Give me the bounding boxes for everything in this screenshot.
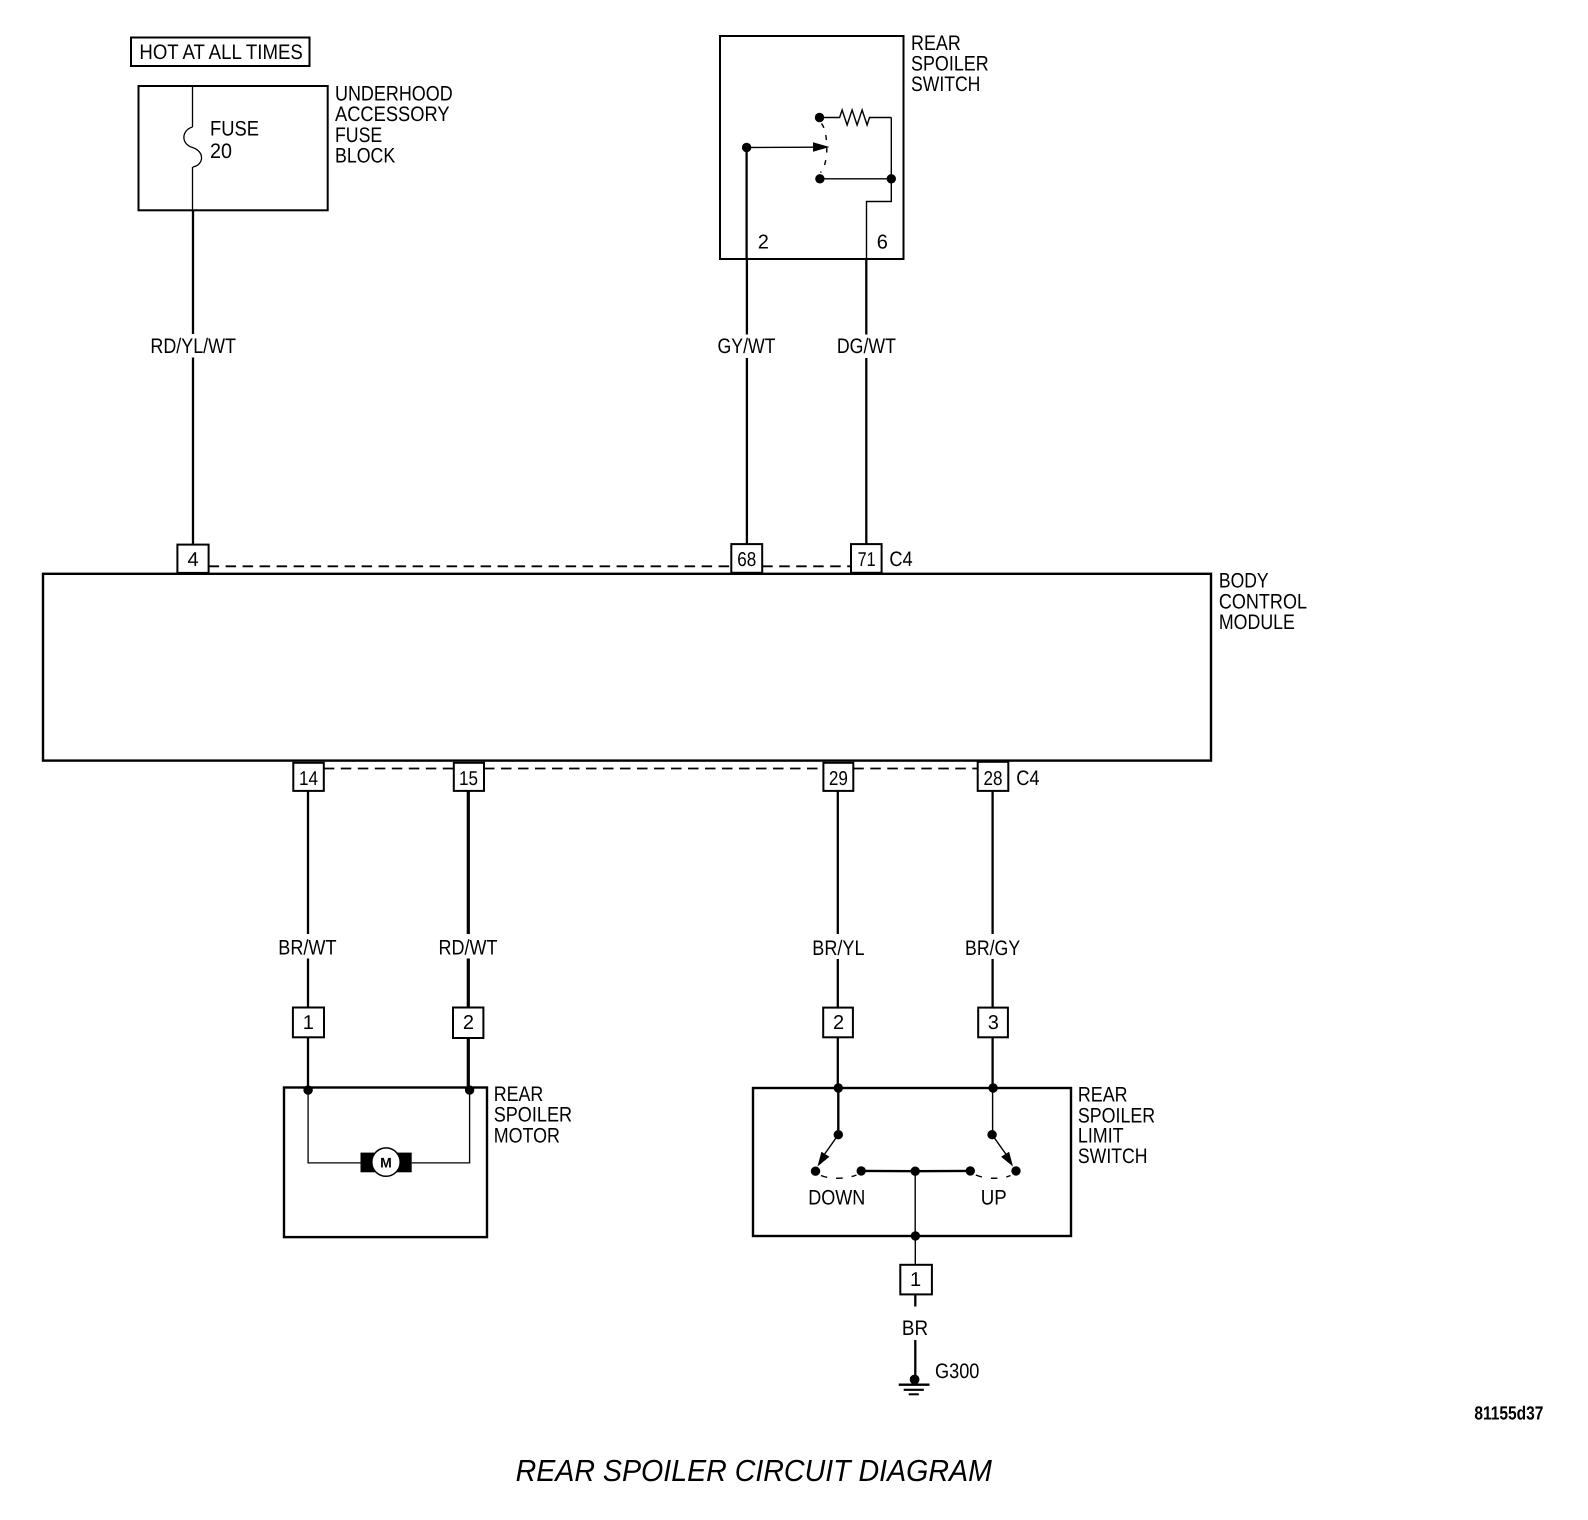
svg-text:BR/GY: BR/GY [965,937,1020,960]
svg-text:BR: BR [902,1317,928,1340]
up dashed arc [976,1175,1011,1178]
motor pin 1 [293,1008,324,1038]
wire BR/YL lower segment [837,959,839,1008]
svg-text:3: 3 [988,1012,999,1034]
label REAR SPOILER SWITCH [911,32,989,96]
wire pin2 to motor [467,1038,470,1088]
svg-text:1: 1 [910,1269,921,1291]
svg-text:MODULE: MODULE [1219,611,1295,634]
pin 68 [731,544,762,573]
svg-text:C4: C4 [889,548,913,571]
wire into fuse [192,86,194,127]
junction dot [887,174,896,183]
svg-text:REAR SPOILER CIRCUIT DIAGRAM: REAR SPOILER CIRCUIT DIAGRAM [516,1454,993,1488]
node dot limit entry left [834,1083,843,1092]
svg-text:C4: C4 [1016,767,1040,790]
svg-text:FUSE: FUSE [335,124,382,147]
svg-text:68: 68 [737,549,756,571]
fuse FUSE 20 [184,127,202,167]
wire DG/WT lower segment [865,358,867,544]
svg-text:4: 4 [187,549,198,571]
svg-text:2: 2 [833,1012,844,1034]
wire RD/YL/WT upper segment [192,210,194,334]
up inner contact dot [966,1166,975,1175]
svg-text:1: 1 [303,1012,314,1034]
wire RD/WT lower segment [467,959,470,1008]
wire motor internal right [412,1090,470,1163]
wire BR/GY lower segment [991,959,993,1008]
node dot motor pin1 [303,1085,312,1094]
svg-text:BR/WT: BR/WT [278,936,336,959]
svg-text:REAR: REAR [911,32,961,55]
svg-text:BODY: BODY [1219,570,1269,593]
wire resistor right side down [890,118,892,179]
pin 15 [454,763,484,791]
motor pin 2 [453,1008,483,1039]
label UNDERHOOD ACCESSORY FUSE BLOCK [335,83,453,168]
wire pin2 to limit switch [837,1037,839,1088]
wire RD/YL/WT lower segment [192,358,194,545]
wire to down pivot [837,1088,839,1135]
svg-text:CONTROL: CONTROL [1219,590,1307,613]
wire center to box bottom [914,1171,916,1236]
center node dot [911,1167,920,1176]
up switch arm arrow [992,1135,1006,1155]
svg-text:DOWN: DOWN [808,1187,865,1210]
svg-text:28: 28 [984,768,1003,790]
wire BR/GY upper segment [991,791,993,934]
up contact dot [1011,1166,1020,1175]
wire BR/WT lower segment [307,959,309,1008]
node dot motor pin2 [465,1085,474,1094]
svg-text:SWITCH: SWITCH [911,73,980,96]
svg-text:SWITCH: SWITCH [1078,1145,1148,1168]
underhood accessory fuse block box [139,86,328,210]
svg-text:HOT AT ALL TIMES: HOT AT ALL TIMES [139,41,302,64]
motor M symbol [361,1148,412,1176]
down dashed arc [821,1175,857,1178]
down pivot dot [834,1130,843,1139]
wire BR lower segment [914,1340,916,1380]
power label HOT AT ALL TIMES [131,38,310,67]
svg-text:MOTOR: MOTOR [494,1124,560,1147]
svg-text:6: 6 [877,231,888,253]
pin 4 [177,545,208,573]
rear spoiler motor box [284,1088,487,1238]
wire motor internal left [308,1090,360,1163]
switch contact node top dot [815,113,824,122]
wire BR/WT upper segment [307,791,309,934]
pin 29 [823,763,853,791]
limit switch pin 2 [823,1008,853,1038]
svg-text:BR/YL: BR/YL [812,937,864,960]
wire RD/WT upper segment [467,791,470,934]
svg-text:UNDERHOOD: UNDERHOOD [335,83,453,106]
wire GY/WT lower segment [746,358,748,544]
svg-text:M: M [380,1154,392,1170]
wire pin3 to limit switch [991,1037,993,1088]
svg-text:G300: G300 [935,1360,979,1383]
value label FUSE 20 [210,118,259,164]
svg-text:REAR: REAR [1078,1083,1128,1106]
svg-text:SPOILER: SPOILER [911,52,989,75]
wire GY/WT upper segment [746,259,748,335]
switch wiper wire with arrow [747,146,815,148]
wire to up pivot [992,1088,994,1135]
wire DG/WT upper segment [865,259,867,335]
wire common to pin 2 [745,148,747,260]
down inner contact dot [857,1166,866,1175]
wire pin1 to motor [307,1037,309,1088]
resistor in switch [824,110,891,125]
rear spoiler switch box [720,36,904,259]
wire center to up contact [915,1170,970,1173]
dashed connector line bottom [324,768,454,770]
svg-text:71: 71 [858,549,876,571]
svg-text:2: 2 [758,231,769,253]
switch travel dashed arc [821,124,827,173]
switch contact node bottom dot [815,174,824,183]
pin 14 [293,763,324,791]
dashed connector line top [209,565,732,567]
rear spoiler limit switch box [753,1088,1071,1236]
body control module box [43,574,1211,761]
svg-text:14: 14 [299,768,318,790]
switch common node dot [742,143,751,152]
label REAR SPOILER MOTOR [494,1083,572,1147]
svg-text:LIMIT: LIMIT [1078,1125,1124,1148]
svg-text:20: 20 [210,140,232,163]
down switch arm arrow [824,1135,838,1155]
node dot limit entry right [988,1083,997,1092]
svg-text:SPOILER: SPOILER [494,1104,572,1127]
svg-text:2: 2 [463,1012,474,1034]
svg-text:FUSE: FUSE [210,118,259,141]
wire fuse to box bottom [192,167,194,210]
pin 28 [978,762,1009,791]
up pivot dot [987,1130,996,1139]
svg-text:15: 15 [459,768,478,790]
svg-text:RD/YL/WT: RD/YL/WT [150,335,236,358]
label REAR SPOILER LIMIT SWITCH [1078,1083,1155,1168]
wire down contact to center [861,1170,915,1173]
pin 71 [851,544,882,573]
ground pin 1 [900,1265,932,1295]
node dot limit bottom [911,1231,920,1240]
wire junction to pin 6 [867,179,892,259]
svg-text:81155d37: 81155d37 [1474,1404,1543,1425]
limit switch pin 3 [978,1008,1008,1038]
ground symbol G300 [899,1385,930,1395]
wire bottom contact to junction [820,178,891,180]
ground node dot [910,1375,920,1385]
wire BR/YL upper segment [837,791,839,934]
svg-text:DG/WT: DG/WT [837,335,896,358]
label BODY CONTROL MODULE [1219,570,1307,635]
svg-text:UP: UP [981,1187,1007,1210]
svg-text:BLOCK: BLOCK [335,145,395,168]
svg-text:RD/WT: RD/WT [439,936,498,959]
svg-text:ACCESSORY: ACCESSORY [335,103,450,126]
wire BR upper segment [914,1294,916,1306]
svg-text:29: 29 [829,768,848,790]
wire limit to pin 1 [914,1236,916,1265]
down contact dot [811,1167,820,1176]
svg-text:GY/WT: GY/WT [718,335,776,358]
